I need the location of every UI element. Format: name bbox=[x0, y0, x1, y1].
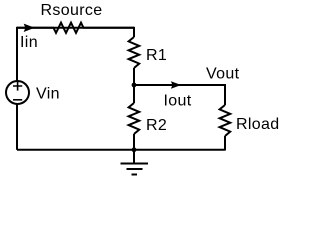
wire: R1 branch stub from top wire bbox=[133, 27, 135, 37]
resistor Rload (vertical zigzag) bbox=[220, 105, 231, 136]
resistor R1 (vertical zigzag) bbox=[129, 37, 140, 68]
wire: right vertical from Vout corner down to Rload bbox=[224, 84, 226, 105]
svg-text:Iin: Iin bbox=[20, 34, 38, 51]
wire: R2 from node down to zigzag bbox=[133, 85, 135, 103]
svg-text:R2: R2 bbox=[146, 117, 167, 134]
resistor Rsource (horizontal zigzag) bbox=[17, 23, 134, 33]
Vin minus sign bbox=[13, 99, 22, 101]
Vin plus sign bbox=[13, 82, 22, 91]
wire: top horizontal from left corner to R1 corner bbox=[17, 27, 134, 29]
arrow Iout on middle wire bbox=[172, 82, 180, 88]
wire: R2 bottom to bottom wire bbox=[133, 134, 135, 150]
svg-text:Rsource: Rsource bbox=[41, 2, 103, 19]
wire: R1 bottom to node bbox=[133, 68, 135, 85]
wire: bottom horizontal bbox=[17, 149, 225, 151]
wire: left vertical from top corner down to Vin top bbox=[16, 27, 18, 81]
ground symbol bbox=[121, 150, 149, 175]
svg-text:Rload: Rload bbox=[236, 116, 280, 133]
wire: Rload bottom to bottom wire bbox=[224, 136, 226, 151]
svg-text:Iout: Iout bbox=[164, 93, 192, 110]
resistor R2 (vertical zigzag) bbox=[129, 103, 140, 134]
voltage source Vin (circle) bbox=[6, 81, 29, 104]
arrow Iin on top wire bbox=[24, 24, 33, 31]
wire: middle horizontal Iout wire bbox=[134, 84, 225, 86]
svg-text:Vout: Vout bbox=[206, 66, 240, 83]
node: junction dot at ground node bbox=[132, 147, 137, 152]
wire: left vertical from Vin bottom to bottom-left corner bbox=[16, 105, 18, 150]
node: junction dot at R1/R2/Iout bbox=[132, 83, 137, 88]
svg-text:Vin: Vin bbox=[36, 86, 60, 103]
svg-text:R1: R1 bbox=[146, 47, 167, 64]
